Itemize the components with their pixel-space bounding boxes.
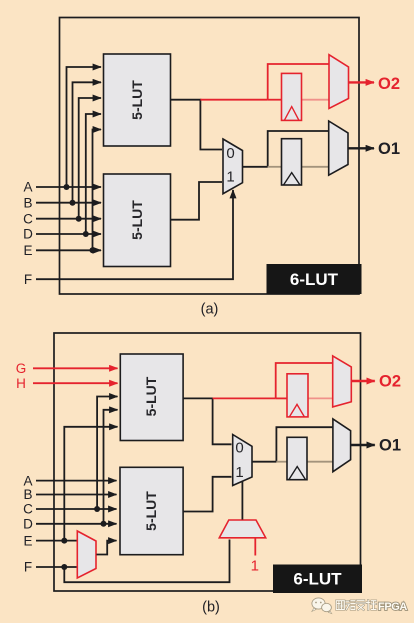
svg-text:(b): (b) [202,600,220,616]
input label C (b) [23,502,33,517]
input label A (b) [23,473,32,488]
wire mux M2 out (b) [252,461,276,463]
input label B (a) [23,195,32,210]
input label C (a) [23,211,33,226]
wire O2 arrow red (b) [351,380,375,382]
label O2 (a) [378,75,400,93]
input label B (b) [23,487,32,502]
wire O2 arrow red (a) [349,81,375,83]
bottom mux trapezoid red (b) [219,520,265,538]
svg-text:5-LUT: 5-LUT [129,80,145,120]
constant 1 red (b) [251,539,259,575]
input label E (a) [23,243,32,258]
wire FF1 out (a) [301,166,329,168]
input label F (b) [24,560,32,575]
svg-text:A: A [23,473,32,488]
5-LUT upper (a) [104,54,171,146]
5-LUT upper (b) [120,354,183,441]
svg-text:E: E [23,533,32,548]
wire C (b) [36,397,118,513]
wire O1 arrow (b) [351,444,375,446]
svg-text:F: F [24,272,32,287]
wire red main (a) [200,99,267,101]
wire E (a) [36,130,101,254]
svg-text:FPGA: FPGA [378,601,407,613]
wire red bypass (b) [276,363,333,398]
wechat watermark icon [312,598,332,614]
5-LUT lower (b) [120,467,183,554]
input label H red (b) [16,376,26,391]
5-LUT lower (a) [104,174,171,267]
mux M2 0/1 (b) [233,435,252,486]
wire G red (b) [33,367,118,369]
wire D (a) [36,114,101,237]
svg-text:O1: O1 [378,140,400,158]
outer box (a) [60,18,360,295]
svg-text:5-LUT: 5-LUT [143,491,159,531]
wire FF3 in (b) [276,461,287,463]
svg-text:C: C [23,502,33,517]
svg-text:D: D [23,227,33,242]
svg-text:6-LUT: 6-LUT [290,270,339,289]
svg-text:C: C [23,211,33,226]
wire E/F mux out (b) [97,541,117,555]
wire FF2 in pink (a) [268,99,282,101]
6-LUT label box (b) [273,565,362,594]
svg-text:B: B [23,487,32,502]
wire FF1 in (a) [268,166,282,168]
outer box (b) [54,333,361,591]
wire upper LUT out (a) [171,100,223,150]
6-LUT label box (a) [267,264,362,294]
wire upper LUT out (b) [184,398,232,444]
svg-text:F: F [24,560,32,575]
wire bypass black (b) [276,427,333,462]
svg-text:B: B [23,195,32,210]
input label D (a) [23,227,33,242]
svg-text:6-LUT: 6-LUT [293,570,342,589]
wire B (b) [36,494,117,496]
svg-text:D: D [23,517,33,532]
label O2 (b) [379,373,401,391]
input label G red (b) [16,361,27,376]
caption (b) [202,600,220,616]
flip-flop FF4 red (b) [287,374,308,417]
flip-flop FF2 red (a) [282,73,302,120]
caption (a) [201,302,219,318]
flip-flop FF3 (b) [287,437,307,479]
wire lower LUT out (a) [171,182,223,220]
input label D (b) [23,517,33,532]
svg-text:1: 1 [235,464,243,481]
wire H red (b) [33,382,118,384]
wire D (b) [36,410,118,527]
wire select trap to mux (b) [241,481,243,520]
svg-text:H: H [16,376,26,391]
wire C (a) [36,98,101,222]
svg-text:E: E [23,243,32,258]
input label A (a) [23,180,32,195]
wire red bypass (a) [268,64,329,100]
label O1 (a) [378,140,400,158]
input label F (a) [24,272,32,287]
label O1 (b) [379,437,401,455]
mux output O1 (b) [333,419,351,472]
wire O1 arrow (a) [348,147,374,149]
wire FF4 out pink (b) [307,397,334,399]
wire red main (b) [213,397,276,399]
mux E/F red (b) [77,531,96,578]
svg-text:O2: O2 [378,75,400,93]
wire B (a) [36,82,101,205]
wire lower LUT out (b) [183,477,232,512]
svg-text:0: 0 [226,145,234,162]
svg-text:0: 0 [235,440,243,457]
mux output O2 red (a) [329,55,349,109]
wire F (b) [36,540,230,583]
svg-text:G: G [16,361,27,376]
wire F to mux select (a) [36,190,233,279]
wire FF2 out pink (a) [301,99,329,101]
wire E (b) [36,427,118,544]
wire mux M1 out (a) [243,166,268,168]
svg-text:O2: O2 [379,373,401,391]
mux M1 0/1 (a) [223,139,243,194]
svg-text:5-LUT: 5-LUT [143,376,159,416]
wire A (b) [36,480,117,482]
flip-flop FF1 (a) [282,139,302,185]
wire A (a) [36,67,101,190]
wechat watermark text (vector hanzi 网络交换 + FPGA) [336,600,407,613]
svg-text:A: A [23,180,32,195]
svg-text:O1: O1 [379,437,401,455]
svg-text:(a): (a) [201,302,219,318]
wire FF4 in pink (b) [276,397,288,399]
wire FF3 out (b) [307,461,333,463]
mux output O2 red (b) [333,356,352,407]
wire bypass black (a) [268,131,329,167]
svg-text:1: 1 [251,557,259,574]
mux output O1 (a) [329,121,348,175]
svg-text:1: 1 [226,169,234,186]
svg-text:5-LUT: 5-LUT [129,200,145,240]
input label E (b) [23,533,32,548]
